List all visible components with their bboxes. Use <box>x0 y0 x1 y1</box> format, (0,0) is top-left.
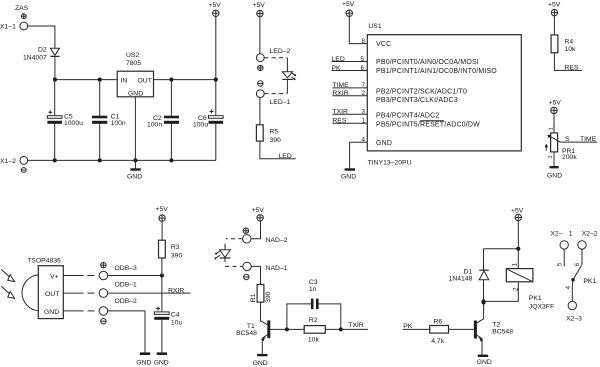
svg-text:1: 1 <box>548 127 554 130</box>
svg-text:ODB–3: ODB–3 <box>115 265 138 272</box>
svg-text:+5V: +5V <box>549 99 562 106</box>
svg-text:OUT: OUT <box>45 291 59 298</box>
svg-text:R5: R5 <box>270 129 279 136</box>
svg-text:6: 6 <box>574 262 581 266</box>
svg-text:NAD–2: NAD–2 <box>266 237 288 244</box>
svg-text:1N4007: 1N4007 <box>23 55 47 62</box>
svg-text:200k: 200k <box>562 154 577 161</box>
svg-text:GND: GND <box>547 173 562 180</box>
svg-text:BC548: BC548 <box>236 330 257 337</box>
svg-text:+5V: +5V <box>156 206 169 213</box>
svg-text:1N4148: 1N4148 <box>449 275 473 282</box>
svg-text:GND: GND <box>341 173 356 180</box>
svg-text:ODB–2: ODB–2 <box>115 298 138 305</box>
svg-text:1: 1 <box>569 231 573 238</box>
svg-text:R6: R6 <box>434 319 443 326</box>
svg-text:100u: 100u <box>193 121 208 128</box>
svg-text:7: 7 <box>362 82 366 89</box>
svg-text:X2–3: X2–3 <box>566 315 582 322</box>
svg-text:4: 4 <box>565 285 572 289</box>
svg-text:D2: D2 <box>38 47 47 54</box>
svg-text:3: 3 <box>362 109 366 116</box>
svg-text:10u: 10u <box>171 320 183 327</box>
svg-text:BC548: BC548 <box>492 328 513 335</box>
svg-text:GND: GND <box>477 359 492 366</box>
svg-text:PB2/PCINT2/SCK/ADC1/T0: PB2/PCINT2/SCK/ADC1/T0 <box>376 89 467 96</box>
svg-text:US2: US2 <box>126 52 139 59</box>
svg-text:GND: GND <box>253 360 268 367</box>
svg-text:GND: GND <box>128 90 143 97</box>
svg-text:R4: R4 <box>565 39 574 46</box>
svg-text:TXIR: TXIR <box>348 322 364 329</box>
svg-text:GND: GND <box>44 309 59 316</box>
svg-text:VCC: VCC <box>376 41 391 48</box>
svg-text:IN: IN <box>121 78 128 85</box>
svg-text:LED: LED <box>279 153 292 160</box>
svg-text:8: 8 <box>362 38 366 45</box>
svg-text:RXIR: RXIR <box>168 287 184 294</box>
svg-text:6: 6 <box>361 65 365 72</box>
svg-text:100n: 100n <box>147 121 162 128</box>
svg-text:GND: GND <box>154 360 169 367</box>
svg-text:10k: 10k <box>308 337 320 344</box>
svg-text:TINY13–20PU: TINY13–20PU <box>368 160 412 167</box>
svg-text:ODB–1: ODB–1 <box>115 281 138 288</box>
svg-text:NAD–1: NAD–1 <box>266 265 288 272</box>
svg-text:JQX3FF: JQX3FF <box>529 303 554 310</box>
svg-text:100n: 100n <box>111 120 126 127</box>
svg-text:ZAS: ZAS <box>15 5 29 12</box>
svg-text:7805: 7805 <box>126 60 141 67</box>
svg-text:+5V: +5V <box>253 2 266 9</box>
svg-text:+5V: +5V <box>252 207 265 214</box>
svg-text:GND: GND <box>127 173 142 180</box>
svg-text:TSOP4836: TSOP4836 <box>27 258 61 265</box>
svg-text:3: 3 <box>548 155 554 158</box>
svg-text:T2: T2 <box>492 321 500 328</box>
svg-text:X2–: X2– <box>550 231 562 238</box>
svg-text:390: 390 <box>171 252 183 259</box>
svg-text:TIME: TIME <box>580 136 597 143</box>
svg-text:PB4/PCINT4/ADC2: PB4/PCINT4/ADC2 <box>376 113 439 120</box>
svg-text:1n: 1n <box>309 286 317 293</box>
svg-text:S: S <box>565 136 570 143</box>
svg-text:R2: R2 <box>309 317 318 324</box>
svg-text:1000u: 1000u <box>64 120 83 127</box>
svg-text:+5V: +5V <box>342 1 355 8</box>
svg-text:5: 5 <box>361 56 365 63</box>
svg-text:GND: GND <box>136 360 151 367</box>
svg-text:GND: GND <box>376 140 392 147</box>
svg-text:V+: V+ <box>50 273 59 280</box>
svg-text:+5V: +5V <box>548 1 561 8</box>
svg-text:+5V: +5V <box>511 207 524 214</box>
svg-text:C4: C4 <box>171 311 180 318</box>
svg-text:2: 2 <box>362 90 366 97</box>
svg-text:1: 1 <box>362 118 366 125</box>
svg-text:4,7k: 4,7k <box>431 338 444 345</box>
svg-text:390: 390 <box>265 291 272 303</box>
svg-text:PB3/PCINT3/CLKI/ADC3: PB3/PCINT3/CLKI/ADC3 <box>376 97 458 104</box>
svg-text:D1: D1 <box>464 268 473 275</box>
svg-text:10k: 10k <box>565 46 577 53</box>
svg-text:US1: US1 <box>368 23 381 30</box>
svg-text:1: 1 <box>511 263 518 267</box>
svg-text:PB1/PCINT1/AIN1/OC0B/INT0/MISO: PB1/PCINT1/AIN1/OC0B/INT0/MISO <box>376 68 497 75</box>
svg-text:PB5/PCINT5/RESET/ADC0/DW: PB5/PCINT5/RESET/ADC0/DW <box>376 122 480 129</box>
svg-text:PB0/PCINT0/AIN0/OC0A/MOSI: PB0/PCINT0/AIN0/OC0A/MOSI <box>376 59 479 66</box>
svg-text:R1: R1 <box>250 293 257 302</box>
svg-text:R3: R3 <box>171 244 180 251</box>
svg-text:4: 4 <box>362 137 366 144</box>
svg-text:OUT: OUT <box>138 78 152 85</box>
svg-text:LED–1: LED–1 <box>270 99 291 106</box>
svg-text:X1–2: X1–2 <box>0 158 16 165</box>
svg-text:RES: RES <box>565 65 579 72</box>
svg-text:PK1: PK1 <box>529 295 542 302</box>
svg-text:390: 390 <box>270 137 282 144</box>
svg-text:LED–2: LED–2 <box>270 48 291 55</box>
svg-text:+5V: +5V <box>209 2 222 9</box>
svg-text:5: 5 <box>556 262 563 266</box>
svg-text:X1–1: X1–1 <box>0 24 16 31</box>
svg-text:X2–2: X2–2 <box>582 231 598 238</box>
svg-text:PK1: PK1 <box>583 278 596 285</box>
